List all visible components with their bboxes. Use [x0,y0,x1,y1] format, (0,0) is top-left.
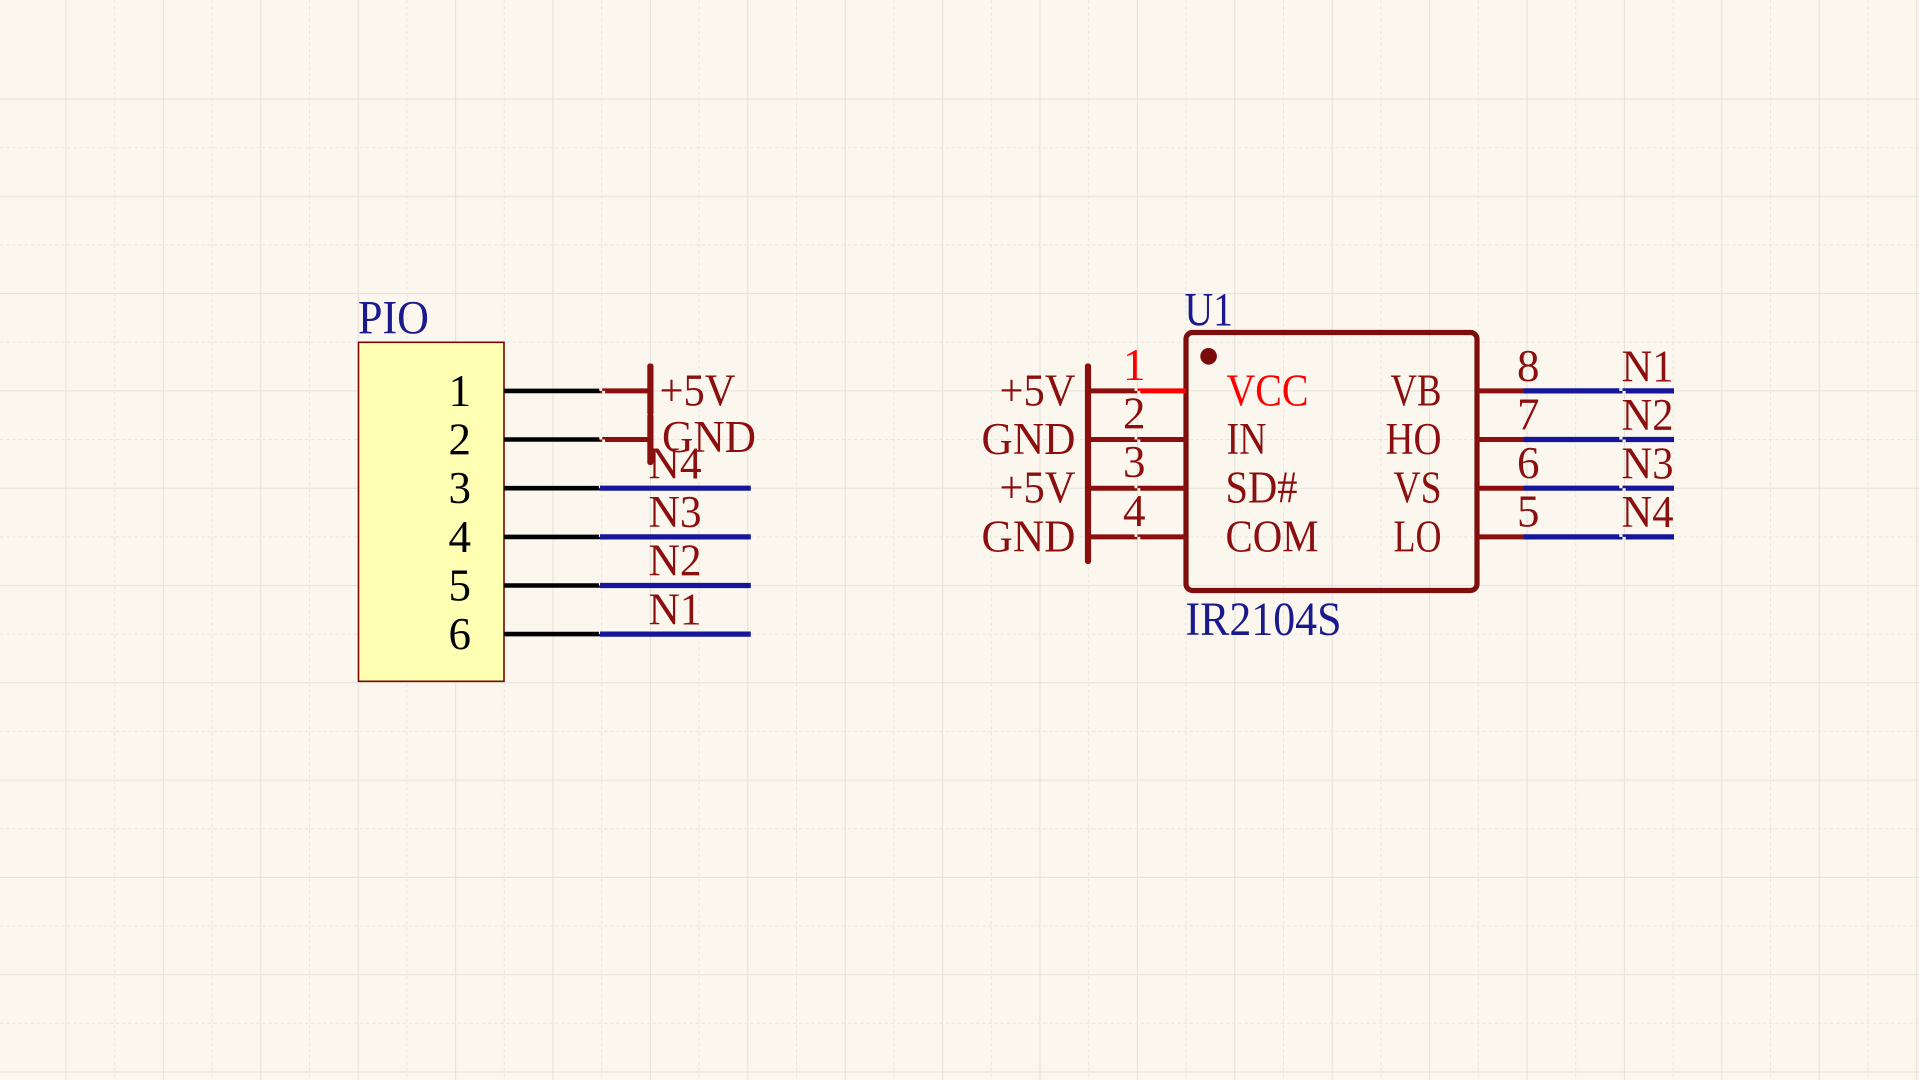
IC U1 body [1186,333,1477,591]
connector pin 2 wire [504,437,600,442]
net wire N1 (U1 pin 8) [1524,388,1675,393]
svg-text:N4: N4 [1622,487,1674,537]
svg-text:2: 2 [449,415,472,465]
net wire N3 (connector pin 4) [600,534,751,539]
connector pin 6 wire [504,632,600,637]
joint marker pin1 [599,388,605,393]
svg-text:4: 4 [1123,486,1146,536]
svg-text:2: 2 [1123,389,1146,439]
svg-text:VB: VB [1391,365,1442,415]
svg-text:6: 6 [449,609,472,659]
svg-text:HO: HO [1386,414,1442,464]
net wire N4 (U1 pin 5) [1524,534,1675,539]
joint marker pin2 [599,437,605,442]
net wire N2 (connector pin 5) [600,583,751,588]
svg-text:+5V: +5V [1000,365,1076,415]
joint marker connector pin 4 [599,534,603,539]
U1 pin 6 stub [1477,486,1524,491]
net wire N1 (connector pin 6) [600,631,751,636]
svg-text:4: 4 [449,512,472,562]
svg-text:U1: U1 [1185,284,1234,337]
svg-text:VCC: VCC [1227,365,1309,415]
svg-text:N1: N1 [1622,341,1674,391]
svg-text:N3: N3 [649,487,702,537]
power port +5V bar [647,364,653,416]
joint marker connector pin 3 [599,486,603,491]
svg-text:8: 8 [1517,341,1540,391]
wire pin1 to +5V port [600,388,650,393]
svg-text:N3: N3 [1622,439,1674,489]
wire +5V to pin 1 [1088,388,1137,393]
joint marker U1 pin 3 [1135,486,1141,491]
joint marker net N3 [1619,486,1625,491]
joint marker U1 pin 1 [1135,388,1141,393]
net wire N2 (U1 pin 7) [1524,437,1675,442]
power port GND bar [647,414,653,466]
svg-text:SD#: SD# [1226,463,1298,513]
svg-text:6: 6 [1517,438,1540,488]
svg-text:5: 5 [449,561,472,611]
U1 pin 8 stub [1477,388,1524,393]
joint marker net N4 [1619,534,1625,539]
svg-text:1: 1 [449,366,472,416]
wire GND to pin 4 [1088,534,1186,539]
wire +5V to pin 3 [1088,486,1186,491]
wire GND to pin 2 [1088,437,1186,442]
joint marker U1 pin 4 [1135,534,1141,539]
svg-text:5: 5 [1517,487,1540,537]
connector PIO body [359,342,505,681]
U1 pin 7 stub [1477,437,1524,442]
svg-text:N1: N1 [649,584,702,634]
svg-text:3: 3 [449,463,472,513]
svg-text:N4: N4 [649,438,702,488]
connector pin 1 wire [504,389,600,394]
svg-text:GND: GND [982,414,1076,464]
connector pin 5 wire [504,583,600,588]
joint marker connector pin 6 [599,631,603,636]
joint marker net N1 [1619,388,1625,393]
svg-text:N2: N2 [649,536,702,586]
svg-text:COM: COM [1226,511,1319,561]
svg-text:7: 7 [1517,389,1540,439]
svg-text:1: 1 [1123,340,1146,390]
IC U1 pin-1 dot [1200,348,1217,365]
svg-text:LO: LO [1394,511,1442,561]
wire pin2 to GND port [600,437,650,442]
U1 pin 5 stub [1477,534,1524,539]
connector pin 4 wire [504,535,600,540]
svg-text:IN: IN [1227,414,1267,464]
connector pin 3 wire [504,486,600,491]
svg-text:PIO: PIO [358,292,429,345]
power bus bar left of U1 [1085,364,1091,565]
joint marker net N2 [1619,437,1625,442]
svg-text:+5V: +5V [660,365,736,415]
svg-text:VS: VS [1394,463,1442,513]
joint marker connector pin 5 [599,583,603,588]
svg-text:GND: GND [982,511,1076,561]
svg-text:N2: N2 [1622,390,1674,440]
net wire N3 (U1 pin 6) [1524,486,1675,491]
svg-text:+5V: +5V [1000,463,1076,513]
U1 pin 1 (selected, red) [1137,388,1186,393]
svg-text:IR2104S: IR2104S [1186,593,1342,646]
net wire N4 (connector pin 3) [600,486,751,491]
svg-text:3: 3 [1123,437,1146,487]
joint marker U1 pin 2 [1135,437,1141,442]
